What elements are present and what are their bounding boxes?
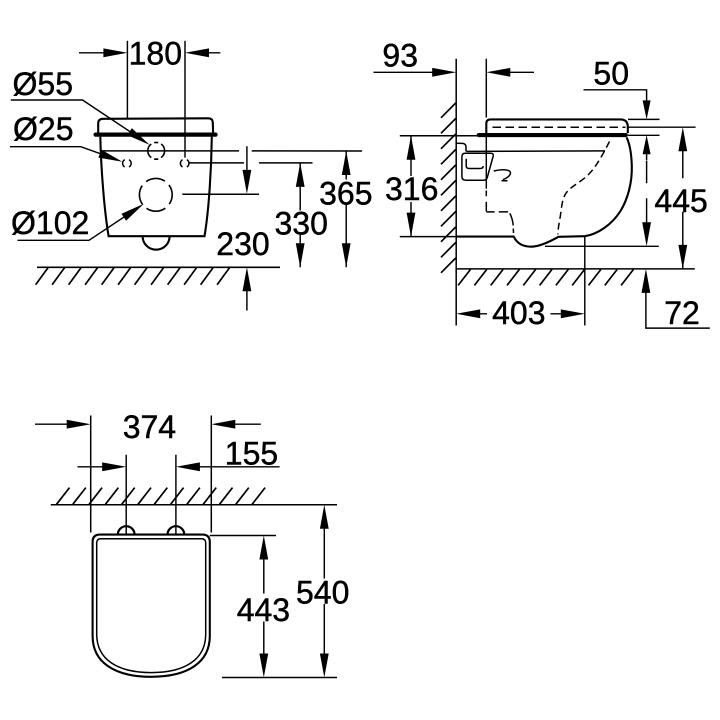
dimension 374 xyxy=(35,423,261,425)
svg-text:Ø25: Ø25 xyxy=(13,111,73,147)
svg-text:230: 230 xyxy=(216,226,269,262)
side seat lid outline xyxy=(486,119,628,133)
Ø102 outlet (dashed circle) xyxy=(139,178,172,211)
dimension 365 xyxy=(345,151,347,267)
side flush valve inner L xyxy=(466,159,483,169)
330 reference line xyxy=(189,162,312,164)
svg-text:540: 540 xyxy=(296,575,349,611)
svg-text:50: 50 xyxy=(593,55,629,91)
plan hinge bolt right xyxy=(168,526,185,534)
front drain bump xyxy=(143,236,170,250)
svg-text:Ø102: Ø102 xyxy=(11,205,89,241)
dimension 180 xyxy=(79,41,220,158)
side outlet hook xyxy=(494,170,511,180)
svg-text:316: 316 xyxy=(385,171,438,207)
front seat lid outline xyxy=(98,118,213,132)
plan seat outer outline xyxy=(93,535,210,677)
svg-text:443: 443 xyxy=(237,592,290,628)
svg-text:72: 72 xyxy=(664,295,700,331)
side floor hatching xyxy=(458,269,633,285)
dimension 72 xyxy=(545,245,659,247)
svg-text:374: 374 xyxy=(123,409,176,445)
front seam line (also 365 reference) xyxy=(101,150,362,152)
side inlet centre line x=486.3 xyxy=(485,59,487,189)
side outlet hidden (dashed) path xyxy=(486,191,513,234)
plan wall hatching xyxy=(57,488,266,505)
side bowl front face xyxy=(585,137,632,236)
plan bowl side edges (also 374 extension lines) xyxy=(91,416,212,533)
svg-text:180: 180 xyxy=(129,36,182,72)
dimension 155 xyxy=(78,466,280,468)
svg-text:93: 93 xyxy=(382,38,418,74)
front floor line xyxy=(37,266,280,268)
dimension 93 xyxy=(374,71,535,73)
plan hinge bolt left xyxy=(118,526,135,534)
dimension 316 xyxy=(400,236,456,238)
Ø25 fixing hole left xyxy=(123,160,132,167)
plan wall face line xyxy=(51,504,337,506)
front seat band (thick edge) xyxy=(96,133,216,137)
svg-text:Ø55: Ø55 xyxy=(13,66,73,102)
svg-text:445: 445 xyxy=(654,183,707,219)
dimension 230 xyxy=(246,146,248,310)
front bowl outline xyxy=(100,137,212,237)
side flush valve box xyxy=(462,153,493,180)
dimension 540 xyxy=(323,521,325,662)
side trap hidden contour (dashed) xyxy=(558,142,610,235)
side ceramic top line (also 316 top ref) xyxy=(400,135,479,137)
side inlet step near wall xyxy=(456,143,466,151)
side seat band (thick edge) xyxy=(479,133,626,137)
svg-text:365: 365 xyxy=(319,176,372,212)
Ø55 inlet hole (dashed circle) xyxy=(148,142,165,159)
wall hatching xyxy=(441,103,456,273)
svg-text:403: 403 xyxy=(492,295,545,331)
230 reference line (drain centre) xyxy=(182,193,259,195)
wall face line xyxy=(455,59,457,326)
plan seat inner line xyxy=(97,539,206,673)
Ø25 fixing hole right xyxy=(180,160,189,167)
side bowl underside xyxy=(456,236,585,247)
svg-text:155: 155 xyxy=(225,436,278,472)
dimension 330 xyxy=(299,163,301,267)
side ceramic inner shelf line xyxy=(466,150,605,153)
dimension 443 xyxy=(210,535,276,537)
side floor line xyxy=(456,268,695,270)
side seat lid seam (dashed) xyxy=(493,126,626,128)
dimension 403 xyxy=(584,236,586,325)
front floor hatching xyxy=(36,268,230,285)
dimension 50 xyxy=(584,90,647,104)
dimension 445 xyxy=(628,126,695,128)
